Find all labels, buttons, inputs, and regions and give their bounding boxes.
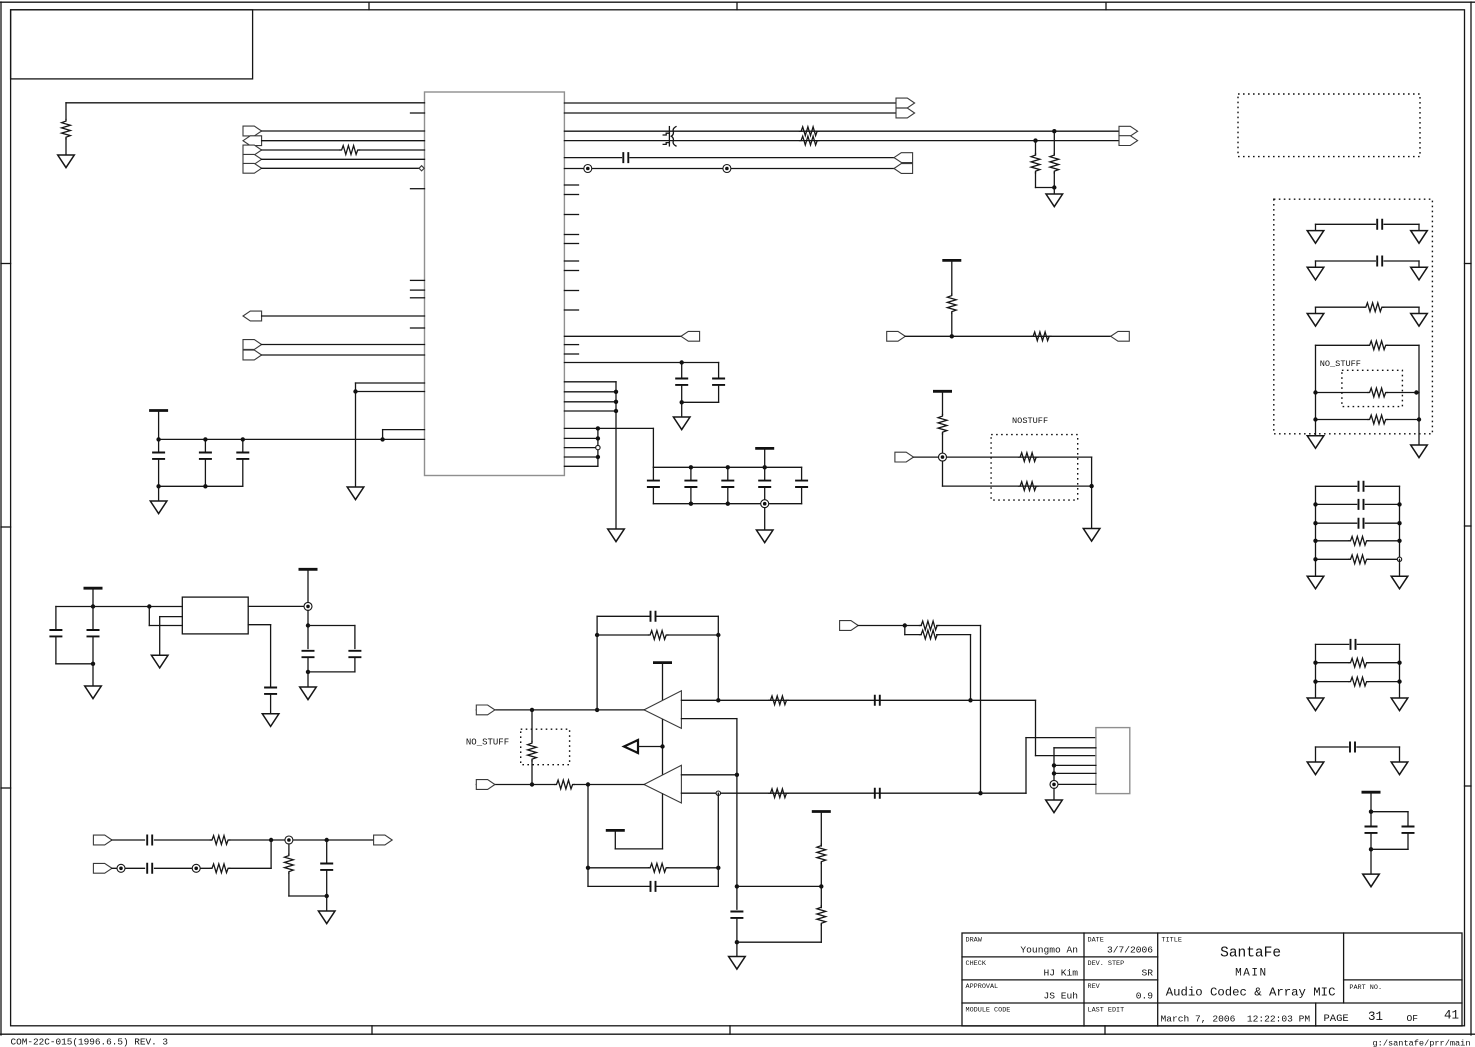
junction: [689, 465, 693, 469]
wire C2 leads: [204, 439, 206, 452]
junction: [530, 708, 534, 712]
wire J1 pin1 h: [981, 792, 1026, 794]
ground mid: [347, 487, 364, 500]
capacitor C7: [647, 481, 660, 487]
junction: [819, 884, 823, 888]
wire bus jog up: [382, 430, 384, 440]
capacitor C9: [721, 481, 734, 487]
junction: [1052, 763, 1056, 767]
audio codec U1: [425, 92, 565, 476]
wire lad1 row540.8 a: [1316, 540, 1349, 542]
wire lad1 row486.3 a: [1316, 485, 1357, 487]
wire ns right vert: [1418, 345, 1420, 445]
pin stub U1 left y188.7: [411, 188, 425, 190]
ground at R1: [58, 155, 75, 168]
svg-text:REV: REV: [1088, 983, 1101, 991]
wire lad1 row486.3 b: [1365, 485, 1399, 487]
ground cl3 R: [1391, 762, 1408, 775]
svg-text:LAST EDIT: LAST EDIT: [1088, 1007, 1125, 1015]
ground C26 R: [1411, 267, 1428, 280]
wire in pair b1: [905, 634, 921, 636]
junction: [269, 838, 273, 842]
svg-text:31: 31: [1368, 1010, 1383, 1024]
wire fb1 right vert: [717, 616, 719, 700]
wire lad1 right rail: [1399, 486, 1401, 559]
wire lad1 row523.2 b: [1365, 522, 1399, 524]
capacitor lad1 486.3: [1359, 481, 1364, 492]
wire gnd stem: [764, 508, 766, 530]
junction: [1313, 390, 1317, 394]
wire C20 top: [55, 607, 57, 630]
junction: [1417, 417, 1421, 421]
wire R6 top lead: [1053, 131, 1055, 155]
ground ns R: [1411, 445, 1428, 458]
svg-text:MAIN: MAIN: [1235, 968, 1266, 980]
junction: [716, 698, 720, 702]
junction: [716, 633, 720, 637]
svg-text:SantaFe: SantaFe: [1220, 946, 1281, 962]
resistor R22: [210, 836, 230, 845]
wire U1 pin392r: [564, 391, 616, 393]
resistor R12: [649, 631, 668, 640]
junction: [91, 604, 95, 608]
wire in pair a: [858, 625, 921, 627]
capacitor C32: [1365, 827, 1378, 833]
ground C5 C6: [673, 417, 690, 430]
capacitor C3: [236, 453, 249, 459]
wire rowC dropL: [1315, 307, 1317, 313]
wire in a drop: [980, 626, 982, 794]
wire C11 bottom lead: [801, 488, 803, 504]
wire LINEa: [564, 130, 1119, 132]
power bar VDD4: [933, 390, 952, 393]
capacitor C4: [623, 152, 628, 163]
wire ns bot a: [1316, 419, 1369, 421]
capacitor C24: [264, 688, 277, 694]
title block frame: [962, 933, 1462, 1026]
wire CN1-3b: [359, 149, 425, 151]
wire R5 to R6 gnd: [1036, 187, 1055, 189]
wire C6 down: [718, 363, 720, 379]
resistor R13: [769, 696, 788, 705]
open pin circle: [596, 445, 600, 449]
wire C1 top lead: [158, 439, 160, 452]
wire fb2 left vert: [587, 785, 589, 887]
wire in pair a2: [937, 625, 981, 627]
junction: [596, 426, 600, 430]
capacitor C31: [1402, 827, 1415, 833]
wire fb2 res rail b: [668, 867, 719, 869]
ground cluster: [756, 530, 773, 543]
ground bus: [608, 529, 625, 542]
NOSTUFF dotted box: [991, 435, 1078, 501]
junction: [950, 334, 954, 338]
connector CN11: [895, 452, 914, 462]
power bar VOUT: [299, 568, 318, 571]
junction: [726, 465, 730, 469]
junction: [1397, 661, 1401, 665]
junction: [763, 465, 767, 469]
wire VOUT stem: [307, 569, 309, 602]
wire C2 bottom lead: [204, 459, 206, 486]
ground cl4: [1363, 874, 1380, 887]
junction: [1397, 679, 1401, 683]
wire VDD5 stem: [1370, 792, 1372, 826]
wire J1 pin1: [1026, 737, 1096, 739]
svg-text:DRAW: DRAW: [966, 937, 983, 945]
wire C5 top lead: [681, 363, 683, 379]
wire in pair b2: [937, 634, 971, 636]
connector CN1 pin2: [243, 136, 262, 146]
wire C6 bottom lead: [718, 385, 720, 402]
wire R24 bottom: [288, 873, 290, 896]
wire U1 pin438: [564, 437, 598, 439]
junction: [203, 437, 207, 441]
wire fb2 cap rail b: [655, 885, 718, 887]
connector CN7 pin1: [894, 153, 913, 163]
wire J1 pin4: [1054, 764, 1096, 766]
svg-text:NO_STUFF: NO_STUFF: [1320, 359, 1361, 369]
wire LINEb: [564, 140, 1119, 142]
resistor lad2 662: [1349, 658, 1368, 667]
NO_STUFF dotted box right: [1342, 370, 1403, 406]
wire CN1-1: [262, 130, 425, 132]
wire C21 bottom: [92, 637, 94, 664]
wire J1 pin3 v: [1035, 700, 1037, 755]
wire C8 bottom lead: [690, 488, 692, 504]
ground NOSTUFF: [1083, 529, 1100, 542]
wire row C25 enddropL: [1315, 224, 1317, 230]
svg-text:CHECK: CHECK: [966, 960, 987, 968]
connector CN9: [887, 331, 906, 341]
wire bias stem: [820, 812, 822, 847]
resistor R9: [938, 415, 947, 435]
wire U2 pin2 out: [248, 624, 270, 626]
title note box top-left: [11, 10, 253, 79]
wire fb2 cap rail a: [588, 885, 651, 887]
junction: [660, 744, 664, 748]
wire blA3: [229, 839, 373, 841]
resistor R8: [1032, 332, 1051, 341]
capacitor C26: [1377, 256, 1382, 267]
wire U1 pin448: [564, 447, 598, 449]
wire R24 to C19: [289, 895, 327, 897]
wire gnd stem: [307, 672, 309, 687]
wire U2 out: [248, 605, 308, 607]
wire U1 pin383: [356, 382, 425, 384]
capacitor lad1 504.4: [1359, 499, 1364, 510]
junction: [1397, 521, 1401, 525]
ground C25 L: [1307, 231, 1324, 244]
wire lad1 row559.3 b: [1368, 558, 1400, 560]
wire C7 top lead: [652, 467, 654, 480]
connector CN14: [840, 621, 859, 631]
capacitor C16: [730, 912, 743, 918]
junction: [689, 502, 693, 506]
wire row C25 a: [1316, 223, 1376, 225]
capacitor C12: [651, 611, 656, 622]
wire gnd stem: [681, 402, 683, 417]
junction: [595, 633, 599, 637]
svg-text:DEV. STEP: DEV. STEP: [1088, 960, 1125, 968]
wire C7 bottom lead: [652, 488, 654, 504]
wire R7 bottom: [951, 313, 953, 336]
capacitor C5: [675, 379, 688, 385]
connector CN5 pin2: [896, 108, 915, 118]
wire blB3: [229, 867, 271, 869]
wire net1: [905, 335, 1110, 337]
resistor lad1 559.3: [1349, 555, 1368, 564]
junction: [735, 940, 739, 944]
shield contact: [304, 602, 312, 610]
junction: [1313, 539, 1317, 543]
wire lad1 row540.8 b: [1368, 540, 1400, 542]
shield contact: [939, 453, 947, 461]
wire ref vert: [662, 720, 664, 776]
wire R5 bottom: [1035, 173, 1037, 188]
resistor lad1 540.8: [1349, 536, 1368, 545]
ground lad2 L: [1307, 698, 1324, 711]
wire op2 pwr v: [662, 794, 664, 849]
wire lad2 row1 b: [1357, 643, 1399, 645]
wire R15 bottom lead: [531, 761, 533, 785]
wire C3 top lead: [242, 439, 244, 452]
wire cl3 b: [1357, 746, 1400, 748]
wire OUT1b: [564, 112, 896, 114]
power bar VDD2: [755, 447, 774, 450]
wire CN1-3a: [262, 149, 340, 151]
wire C19 bottom: [326, 870, 328, 896]
power bar VCC op1: [653, 661, 672, 664]
junction: [903, 623, 907, 627]
svg-text:41: 41: [1444, 1009, 1459, 1023]
wire U4 in-: [681, 792, 981, 794]
junction: [735, 773, 739, 777]
resistor R6: [1050, 154, 1059, 174]
wire cl3 dropR: [1399, 747, 1401, 762]
wire C5 C6 rail: [682, 401, 719, 403]
op-amp U4: [644, 765, 681, 803]
junction: [596, 436, 600, 440]
junction: [1313, 679, 1317, 683]
NO_STUFF dotted box op: [521, 729, 570, 765]
wire J1 pin6: [1058, 783, 1096, 785]
wire fb1 left vert: [596, 616, 598, 710]
power bar VDD5: [1362, 791, 1381, 794]
wire fb2 res rail a: [588, 867, 649, 869]
wire row C26 enddropL: [1315, 261, 1317, 267]
wire C19 top: [326, 840, 328, 863]
capacitor C14: [875, 788, 880, 799]
wire in- drop: [736, 719, 738, 775]
junction: [680, 400, 684, 404]
capacitor C22: [302, 651, 315, 657]
ground lad2 R: [1391, 698, 1408, 711]
pin stub U1 left y328: [411, 327, 425, 329]
junction: [595, 708, 599, 712]
wire out drop: [307, 610, 309, 648]
connector CN15: [93, 835, 112, 845]
svg-text:NO_STUFF: NO_STUFF: [466, 738, 509, 748]
wire gnd stem: [158, 486, 160, 501]
svg-text:TITLE: TITLE: [1162, 937, 1182, 945]
pin stub U1 left y297.8: [411, 297, 425, 299]
svg-text:DATE: DATE: [1088, 937, 1104, 945]
pin stub U1 right y194.5: [564, 194, 578, 196]
svg-text:0.9: 0.9: [1136, 991, 1154, 1002]
capacitor C23: [348, 651, 361, 657]
wire fb1 top rail a: [597, 615, 651, 617]
junction: [1052, 771, 1056, 775]
svg-text:PART NO.: PART NO.: [1349, 984, 1382, 992]
junction: [156, 484, 160, 488]
ground bl: [318, 911, 335, 924]
capacitor C11: [795, 481, 808, 487]
wire C11 top lead: [801, 467, 803, 480]
open pin circle: [1397, 557, 1401, 561]
wire C23 top: [354, 626, 356, 649]
wire J1 pin5: [1054, 772, 1096, 774]
dashed box top right: [1238, 94, 1420, 157]
svg-text:March 7, 2006 12:22:03 PM: March 7, 2006 12:22:03 PM: [1161, 1014, 1311, 1025]
junction: [1052, 185, 1056, 189]
junction: [91, 662, 95, 666]
wire C10 bottom lead: [764, 488, 766, 504]
resistor R2: [340, 146, 360, 155]
wire lad2 row2 b: [1368, 662, 1400, 664]
wire ns mid a: [1316, 392, 1369, 394]
wire C1 bottom lead: [158, 459, 160, 486]
connector CN6 pin2: [1119, 136, 1138, 146]
ground reg out: [300, 687, 317, 700]
wire cl3 a: [1316, 746, 1349, 748]
resistor R10: [1019, 453, 1038, 462]
capacitor C1: [152, 453, 165, 459]
6-pin jack J1: [1096, 728, 1130, 794]
junction: [596, 455, 600, 459]
junction: [614, 390, 618, 394]
wire net2 right drop: [1091, 457, 1093, 528]
wire C23 return: [308, 671, 355, 673]
pin stub U1 left y290.1: [411, 289, 425, 291]
resistor R15: [528, 742, 537, 761]
wire R19 bottom: [820, 925, 822, 943]
wire bias return: [737, 941, 821, 943]
pin stub U1 right y243.5: [564, 243, 578, 245]
wire C20 bottom: [55, 637, 57, 664]
ground cl3 L: [1307, 762, 1324, 775]
capacitor C18: [147, 863, 152, 874]
connector CN2: [243, 311, 262, 321]
wire lad1 left rail: [1315, 486, 1317, 576]
wire U1 pin466: [564, 465, 598, 467]
wire ns top a: [1316, 344, 1369, 346]
capacitor C21: [87, 630, 100, 636]
junction: [530, 782, 534, 786]
power bar VDD3: [942, 259, 961, 262]
ground rowC R: [1411, 314, 1428, 327]
ground J1: [1046, 800, 1063, 813]
wire AVDD top: [66, 102, 425, 104]
junction: [586, 866, 590, 870]
wire lad1 row559.3 a: [1316, 558, 1349, 560]
connector CN1 pin4: [243, 154, 262, 164]
wire in b drop: [970, 635, 972, 701]
op-amp U3: [644, 691, 681, 729]
pin stub U1 right y270.5: [564, 270, 578, 272]
wire U2 en up: [148, 607, 150, 626]
resistor R28: [1368, 415, 1387, 424]
wire lad2 row2 a: [1316, 662, 1349, 664]
open pin circle: [716, 791, 720, 795]
shield contact: [584, 165, 592, 173]
wire cl3 dropL: [1315, 747, 1317, 762]
resistor R24: [285, 854, 294, 873]
wire U2 gnd pin: [160, 616, 183, 618]
wire VCC stem op1: [662, 663, 664, 700]
svg-text:COM-22C-015(1996.6.5) REV. 3: COM-22C-015(1996.6.5) REV. 3: [11, 1037, 169, 1047]
junction: [1397, 502, 1401, 506]
svg-text:APPROVAL: APPROVAL: [966, 983, 999, 991]
resistor lad2 680: [1349, 677, 1368, 686]
wire J1 pin2: [1054, 747, 1096, 749]
wire cap gnd rail: [159, 485, 243, 487]
wire C9 bottom lead: [727, 488, 729, 504]
pin stub U1 right y310: [564, 309, 578, 311]
wire row C25 b: [1384, 223, 1419, 225]
wire R5 top lead: [1035, 141, 1037, 155]
connector CN3: [243, 340, 262, 350]
pin stub U1 right y354.0: [564, 353, 578, 355]
pin stub U1 right y344.6: [564, 344, 578, 346]
svg-text:SR: SR: [1141, 968, 1153, 979]
junction: [614, 400, 618, 404]
wire J1 pin3: [1036, 755, 1096, 757]
junction: [1369, 810, 1373, 814]
resistor R17: [649, 863, 668, 872]
pin stub U1 right y214.5: [564, 214, 578, 216]
capacitor lad1 523.2: [1359, 518, 1364, 529]
wire R18 bottom: [820, 863, 822, 886]
junction: [1313, 521, 1317, 525]
junction: [614, 409, 618, 413]
shield contact: [1050, 780, 1058, 788]
junction: [147, 604, 151, 608]
wire VDD1 bus: [159, 438, 425, 440]
wire U3 in+: [681, 699, 970, 701]
wire C23 branch top: [308, 625, 355, 627]
wire CN1-5: [262, 167, 419, 169]
wire OUT1a: [564, 102, 896, 104]
resistor R26: [1368, 341, 1387, 350]
capacitor lad2 643: [1351, 639, 1356, 650]
wire ns mid b: [1387, 392, 1419, 394]
wire lad2 row3 b: [1368, 681, 1400, 683]
svg-text:NOSTUFF: NOSTUFF: [1012, 416, 1048, 426]
resistor R7: [947, 294, 956, 314]
junction: [156, 437, 160, 441]
wire net2a: [914, 456, 1092, 458]
wire cluster bottom rail: [653, 503, 801, 505]
resistor R23: [210, 864, 230, 873]
reference arrow: [624, 740, 663, 753]
capacitor C13: [875, 695, 880, 706]
wire CN3: [262, 344, 425, 346]
ground C24: [262, 714, 279, 727]
wire CN2: [262, 315, 425, 317]
capacitor C8: [684, 481, 697, 487]
wire bias rail: [737, 885, 821, 887]
